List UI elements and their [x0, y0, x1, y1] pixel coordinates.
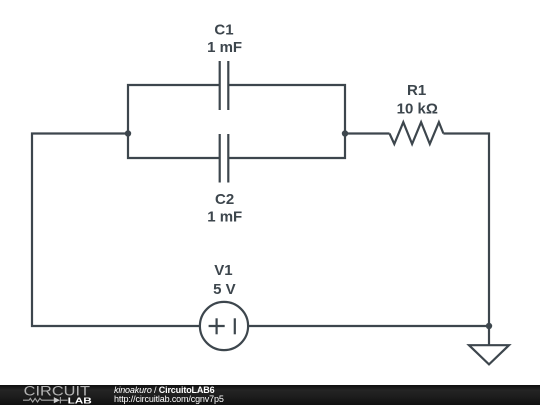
- svg-text:C2: C2: [215, 191, 234, 208]
- svg-text:5 V: 5 V: [213, 281, 236, 298]
- ground: [469, 326, 509, 364]
- node junction dot right: [342, 130, 348, 136]
- svg-text:V1: V1: [214, 262, 232, 279]
- svg-text:1 mF: 1 mF: [207, 39, 242, 56]
- capacitor C2: [220, 134, 229, 183]
- wire middle left + left outer vertical + bottom left to V1: [32, 134, 200, 327]
- wire middle right to resistor: [345, 132, 390, 134]
- footer url line: [114, 395, 224, 404]
- footer bar: [0, 385, 540, 405]
- svg-text:C1: C1: [214, 22, 233, 39]
- CircuitLab logo: [0, 385, 100, 405]
- svg-text:LAB: LAB: [68, 395, 92, 405]
- wire top rail left of C1 + box left vertical + bottom rail left of C2: [128, 85, 220, 158]
- svg-text:R1: R1: [407, 82, 426, 99]
- svg-text:10 kΩ: 10 kΩ: [397, 101, 438, 118]
- footer credit line: [114, 386, 214, 395]
- wire top rail right of C1 + box right vertical + bottom rail right of C2: [228, 85, 345, 158]
- wire V1 to ground corner: [248, 325, 489, 327]
- node junction dot ground: [486, 323, 492, 329]
- capacitor C1: [220, 61, 229, 110]
- svg-text:1 mF: 1 mF: [207, 209, 242, 226]
- resistor R1: [390, 122, 444, 144]
- wire resistor to right corner + right vertical: [443, 134, 489, 327]
- node junction dot left: [125, 130, 131, 136]
- voltage source V1: [200, 302, 248, 350]
